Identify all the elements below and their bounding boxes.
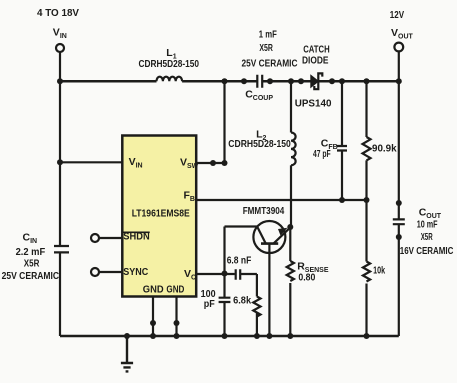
svg-text:6.8k: 6.8k	[233, 294, 251, 306]
svg-text:12V: 12V	[390, 9, 404, 21]
wire 90.9k to FB line and 10k	[365, 160, 367, 261]
svg-text:90.9k: 90.9k	[372, 143, 397, 155]
inductor L2	[291, 133, 296, 166]
junction rail Vc	[222, 333, 228, 339]
wire SHDN pin	[99, 237, 122, 239]
svg-text:GND: GND	[166, 284, 184, 296]
wire right vertical lower	[398, 224, 400, 336]
diode D1 UPS140 triangle	[311, 75, 319, 87]
wire Vc to 6.8k corner	[240, 273, 257, 275]
junction rail emitter	[266, 333, 272, 339]
svg-text:FMMT3904: FMMT3904	[243, 205, 285, 217]
wire Vout stem	[398, 52, 400, 82]
junction rail b	[267, 78, 273, 84]
junction Vin rail	[57, 78, 63, 84]
junction Vin pin	[57, 159, 63, 165]
transistor collector diagonal	[258, 227, 266, 243]
wire left vertical upper	[59, 81, 61, 246]
junction rail a	[241, 78, 247, 84]
wire FB line	[196, 199, 366, 201]
wire bottom rail	[60, 335, 399, 338]
wire left vertical lower	[59, 252, 61, 336]
capacitor C_IN plates	[54, 246, 69, 252]
junction Vsw riser top	[222, 78, 228, 84]
capacitor 6.8nF plates	[236, 269, 241, 280]
wire Vin stem	[59, 52, 61, 81]
svg-text:LT1961EMS8E: LT1961EMS8E	[132, 208, 190, 220]
wire base vertical upper	[223, 227, 225, 298]
wire 90.9k upper lead	[365, 81, 367, 137]
svg-text:pF: pF	[204, 298, 216, 310]
transistor base bar	[261, 242, 278, 245]
wire right vertical upper	[398, 81, 400, 219]
svg-text:CDRH5D28-150: CDRH5D28-150	[228, 138, 291, 150]
resistor 6.8k zigzag	[253, 297, 260, 317]
svg-text:16V CERAMIC: 16V CERAMIC	[400, 245, 454, 257]
transistor Q1 FMMT3904 circle	[253, 221, 285, 253]
svg-text:47 pF: 47 pF	[313, 148, 331, 160]
junction GND2 mid	[174, 320, 180, 326]
junction FB 90.9k	[364, 197, 370, 203]
ground	[121, 336, 133, 371]
wire C_FB lower lead	[341, 151, 343, 200]
svg-text:25V CERAMIC: 25V CERAMIC	[2, 270, 60, 282]
junction L2 top	[288, 78, 294, 84]
transistor emitter stem down	[268, 244, 270, 336]
wire L2 to collector node	[290, 165, 292, 227]
junction Vout corner	[396, 78, 402, 84]
svg-text:X5R: X5R	[421, 231, 433, 243]
svg-text:4 TO 18V: 4 TO 18V	[37, 7, 79, 19]
svg-text:X5R: X5R	[259, 42, 273, 54]
junction C_OUT bottom	[396, 234, 402, 240]
wire GND pin 2	[175, 297, 177, 336]
wire L2 riser top	[290, 81, 292, 132]
wire 6.8k lower lead	[256, 313, 258, 337]
junction GND1 mid	[150, 320, 156, 326]
junction rail GND2	[174, 333, 180, 339]
terminal SYNC	[91, 268, 99, 276]
svg-text:2.2 mF: 2.2 mF	[16, 246, 46, 258]
wire Rsense upper lead	[289, 227, 291, 261]
junction C_OUT top	[396, 200, 402, 206]
inductor L1	[157, 77, 183, 82]
junction C_FB top	[339, 78, 345, 84]
junction Vsw wire a	[210, 160, 216, 166]
svg-text:SYNC: SYNC	[123, 266, 148, 278]
capacitor C_FB plates	[337, 146, 347, 151]
junction rail Rsense	[287, 333, 293, 339]
junction Vsw wire b	[222, 160, 228, 166]
op IC body LT1961EMS8E	[122, 136, 196, 297]
wire top rail segment to diode	[262, 80, 311, 83]
svg-text:DIODE: DIODE	[302, 55, 329, 67]
junction rail gnd	[124, 333, 130, 339]
wire GND pin 1	[152, 297, 154, 336]
svg-text:6.8 nF: 6.8 nF	[227, 255, 252, 267]
resistor R_SENSE zigzag	[287, 261, 294, 281]
pin label SHDN overline	[123, 231, 149, 233]
junction Vc node	[222, 271, 228, 277]
terminal SHDN	[91, 234, 99, 242]
wire Vc pin	[196, 273, 235, 275]
transistor emitter diagonal	[274, 227, 291, 243]
terminal Vout	[394, 43, 403, 52]
wire top rail right segment	[318, 80, 398, 83]
wire top rail mid segment	[182, 80, 257, 83]
svg-text:25V CERAMIC: 25V CERAMIC	[242, 57, 298, 69]
transistor emitter arrowhead	[278, 228, 288, 236]
junction rail GND1	[150, 333, 156, 339]
resistor 10k zigzag	[363, 262, 370, 282]
resistor 90.9k zigzag	[363, 137, 371, 160]
wire 6.8k upper lead	[256, 274, 258, 297]
svg-text:UPS140: UPS140	[295, 97, 332, 109]
wire Vsw pin	[196, 162, 224, 164]
terminal Vin	[56, 44, 64, 52]
junction collector node	[287, 224, 293, 230]
wire C_FB upper lead	[341, 81, 343, 146]
junction 90.9k top	[364, 78, 370, 84]
capacitor C_OUT plates	[393, 219, 405, 224]
wire Rsense lower lead	[289, 283, 291, 336]
svg-text:10 mF: 10 mF	[417, 218, 438, 230]
junction rail 6.8k	[254, 333, 260, 339]
junction rail c	[298, 78, 304, 84]
wire Vsw riser	[223, 81, 225, 163]
diode D1 schottky cathode bar	[314, 73, 322, 89]
junction FB C_FB	[339, 197, 345, 203]
wire top rail left segment	[60, 80, 157, 83]
svg-text:10k: 10k	[373, 265, 385, 277]
junction diode cathode	[329, 78, 335, 84]
wire base horizontal	[225, 225, 258, 227]
wire SYNC pin	[99, 271, 122, 273]
wire base vertical lower	[223, 302, 225, 336]
capacitor C_COUP plates	[257, 75, 262, 88]
svg-text:1 mF: 1 mF	[259, 29, 277, 41]
wire 10k lower lead	[365, 284, 367, 337]
junction rail 10k	[364, 333, 370, 339]
svg-text:GND: GND	[143, 284, 164, 296]
svg-text:CDRH5D28-150: CDRH5D28-150	[139, 58, 200, 70]
svg-text:0.80: 0.80	[298, 271, 315, 283]
svg-text:X5R: X5R	[24, 258, 40, 270]
capacitor 100pF plates	[219, 298, 231, 302]
wire Vin pin	[60, 161, 122, 163]
